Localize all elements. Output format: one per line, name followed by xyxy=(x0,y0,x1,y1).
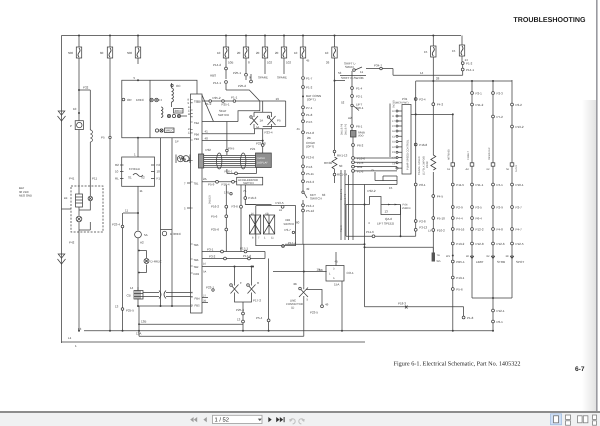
svg-text:TB1: TB1 xyxy=(194,183,199,186)
wire P13-5 xyxy=(245,204,256,206)
connector P1-8 xyxy=(302,113,305,116)
wire col437 xyxy=(432,106,434,253)
svg-text:P25-6: P25-6 xyxy=(236,308,244,312)
terminal A1 xyxy=(451,163,455,166)
terminal A2r xyxy=(470,163,474,166)
connector P4-4 xyxy=(451,217,454,220)
svg-text:P1-2: P1-2 xyxy=(466,62,473,66)
svg-text:P1-4: P1-4 xyxy=(356,87,363,91)
svg-text:RH1-13: RH1-13 xyxy=(337,154,348,158)
svg-text:P9-5: P9-5 xyxy=(228,146,235,150)
connector P10-2 xyxy=(432,229,435,232)
connector P9-16 xyxy=(451,228,454,231)
svg-text:P19-2: P19-2 xyxy=(456,242,464,246)
wire top bus xyxy=(62,35,462,37)
svg-text:5A: 5A xyxy=(203,271,206,274)
svg-text:10: 10 xyxy=(294,51,298,55)
connector P11-1 xyxy=(471,183,474,186)
wire P41 column xyxy=(78,64,80,194)
svg-text:20: 20 xyxy=(275,51,279,55)
connector P6-4 xyxy=(471,217,474,220)
wire F5 column down xyxy=(246,62,251,80)
svg-text:26: 26 xyxy=(326,61,330,65)
svg-text:P25-5: P25-5 xyxy=(126,309,134,313)
wire spare1 xyxy=(264,62,266,74)
svg-text:P13-2: P13-2 xyxy=(516,125,524,129)
svg-text:P12-1: P12-1 xyxy=(497,309,505,313)
svg-text:P25-6: P25-6 xyxy=(211,228,219,232)
svg-text:P16-3: P16-3 xyxy=(248,196,256,200)
svg-text:P7-1: P7-1 xyxy=(306,106,313,110)
svg-text:2B: 2B xyxy=(203,300,206,303)
connector P7-2k xyxy=(302,86,305,89)
svg-text:P41: P41 xyxy=(69,177,75,181)
connector P2-5 xyxy=(471,206,474,209)
connector P2-9 xyxy=(451,206,454,209)
fuse F8 10A xyxy=(294,35,310,63)
ribbon left connector xyxy=(199,154,204,168)
battery cell stack xyxy=(76,194,83,207)
svg-text:P10-2: P10-2 xyxy=(437,229,445,233)
svg-text:P3-1: P3-1 xyxy=(207,248,214,252)
wire P5 column xyxy=(109,64,111,331)
connector P4-7 xyxy=(511,228,514,231)
svg-text:28: 28 xyxy=(436,77,440,81)
svg-text:P5-6: P5-6 xyxy=(456,288,463,292)
connector P25-2a xyxy=(250,80,253,83)
rectifier 2REC xyxy=(174,109,184,114)
wire SCR to P23-4 xyxy=(254,129,272,155)
internal wire xyxy=(149,80,151,138)
horn box xyxy=(351,131,357,138)
svg-text:10: 10 xyxy=(157,170,161,174)
svg-text:P2-7: P2-7 xyxy=(516,206,523,210)
svg-text:25MFD: 25MFD xyxy=(402,207,411,210)
svg-text:LIFT SPEED: LIFT SPEED xyxy=(377,221,395,225)
svg-text:TB4: TB4 xyxy=(194,122,199,125)
svg-text:53: 53 xyxy=(338,71,342,75)
svg-text:P19-1: P19-1 xyxy=(456,276,464,280)
wire col512 xyxy=(511,80,513,259)
svg-text:P2-4: P2-4 xyxy=(419,98,426,102)
svg-text:R2: R2 xyxy=(115,163,119,167)
svg-text:P16-4: P16-4 xyxy=(222,183,230,187)
ffield coil xyxy=(133,174,143,177)
svg-text:2RO8: 2RO8 xyxy=(426,161,429,168)
svg-text:15: 15 xyxy=(424,50,428,54)
svg-text:NEG GND: NEG GND xyxy=(19,194,32,198)
svg-text:P25-1: P25-1 xyxy=(222,103,230,107)
page number input xyxy=(213,415,263,423)
svg-text:500: 500 xyxy=(68,51,73,55)
svg-text:P5-4: P5-4 xyxy=(256,316,263,320)
svg-text:P17-1: P17-1 xyxy=(240,247,248,251)
svg-text:6A: 6A xyxy=(256,126,259,129)
vertical x390 xyxy=(389,104,391,158)
svg-text:P12-6: P12-6 xyxy=(497,242,505,246)
svg-text:500: 500 xyxy=(127,51,132,55)
svg-text:TRAVEL SPEED: TRAVEL SPEED xyxy=(418,156,421,175)
wire col461 xyxy=(462,62,464,76)
svg-text:6-7: 6-7 xyxy=(575,366,585,373)
connector P5-11 xyxy=(302,172,305,175)
svg-text:P13-5: P13-5 xyxy=(276,201,284,205)
SCR P5 xyxy=(268,115,276,129)
connector P2-9b xyxy=(492,206,495,209)
svg-text:RL: RL xyxy=(115,177,119,181)
svg-text:7A: 7A xyxy=(437,254,440,257)
connector P2-8 xyxy=(414,220,417,223)
svg-text:VDO: VDO xyxy=(358,135,363,138)
fuse F5 20A xyxy=(237,35,250,65)
svg-text:SW-1: SW-1 xyxy=(356,106,364,110)
wire bottom bus L1 xyxy=(62,341,366,343)
wire to CO box xyxy=(273,271,327,273)
svg-text:P7-2: P7-2 xyxy=(497,115,504,119)
svg-text:P25-2: P25-2 xyxy=(213,96,221,100)
svg-text:15: 15 xyxy=(452,49,456,53)
svg-text:11: 11 xyxy=(360,70,363,74)
svg-text:P16-2: P16-2 xyxy=(211,205,219,209)
svg-text:1P: 1P xyxy=(175,140,179,144)
toolbar background xyxy=(0,413,600,426)
svg-text:SV21B: SV21B xyxy=(393,100,396,108)
fuse F10 15A xyxy=(424,35,436,103)
svg-text:P4-8: P4-8 xyxy=(497,228,504,232)
wire down to SCRs xyxy=(254,101,286,127)
redo rotate icon (disabled) xyxy=(299,419,304,424)
svg-text:P1-6: P1-6 xyxy=(357,169,364,173)
connector P6-1 xyxy=(351,125,354,128)
ribbon loop 1 xyxy=(217,153,222,169)
svg-text:P13-4: P13-4 xyxy=(306,204,314,208)
svg-text:3W.1B P1: 3W.1B P1 xyxy=(340,188,343,200)
svg-text:20: 20 xyxy=(256,51,260,55)
svg-text:A2: A2 xyxy=(140,241,144,245)
prev page button xyxy=(203,417,206,422)
svg-text:P13-3: P13-3 xyxy=(306,180,314,184)
svg-text:P3-7: P3-7 xyxy=(285,228,292,232)
connector P1-6 xyxy=(352,170,355,173)
single page view button (selected) xyxy=(551,414,562,425)
dir switch box xyxy=(256,206,296,246)
wire key column xyxy=(302,62,305,286)
wire P3-2 row xyxy=(202,252,265,259)
connector P4-1 xyxy=(492,183,495,186)
connector P16-8 xyxy=(414,143,417,146)
wire left rail xyxy=(61,36,63,344)
wire col472 xyxy=(471,80,473,259)
svg-text:P23-4: P23-4 xyxy=(265,131,273,135)
svg-text:11: 11 xyxy=(140,189,143,193)
terminal SOV xyxy=(510,163,514,166)
wire qa6 row with step xyxy=(346,197,401,205)
svg-text:SWITCH: SWITCH xyxy=(284,223,295,226)
svg-text:49: 49 xyxy=(325,303,329,307)
horn EW symbol xyxy=(176,155,190,164)
connector P14-2 xyxy=(225,67,228,70)
wire L down xyxy=(303,299,305,337)
wire main vertical x364.5 xyxy=(364,185,366,307)
wire card to col453 xyxy=(411,113,453,115)
svg-text:DASH: DASH xyxy=(258,157,265,160)
svg-text:P4-2: P4-2 xyxy=(437,103,444,107)
svg-text:14: 14 xyxy=(130,286,134,290)
svg-text:P32-2: P32-2 xyxy=(368,189,376,193)
svg-text:13B: 13B xyxy=(141,320,146,324)
svg-text:50: 50 xyxy=(339,164,343,168)
connector P1-5 xyxy=(352,161,355,164)
svg-text:P4-6: P4-6 xyxy=(306,165,313,169)
two page view button xyxy=(578,416,588,423)
svg-text:P11-5: P11-5 xyxy=(456,183,464,187)
fuse F6 20A xyxy=(256,35,272,65)
svg-text:3W.1B P2: 3W.1B P2 xyxy=(345,123,348,135)
svg-text:5REC: 5REC xyxy=(166,129,175,133)
svg-text:P4-7: P4-7 xyxy=(516,228,523,232)
svg-text:MTR8-8B: MTR8-8B xyxy=(448,149,451,160)
svg-text:P1-1: P1-1 xyxy=(231,96,238,100)
seat switch box xyxy=(202,90,260,122)
connector P4-2 xyxy=(432,103,435,106)
wire battery internals xyxy=(79,201,90,230)
svg-text:P13-6: P13-6 xyxy=(306,156,314,160)
svg-text:P23-5: P23-5 xyxy=(310,311,318,315)
accelerator switch box xyxy=(237,177,263,185)
svg-text:DISPLAY: DISPLAY xyxy=(257,162,268,165)
connector P11-5 xyxy=(451,183,454,186)
svg-text:P1-8: P1-8 xyxy=(467,316,474,320)
svg-text:STRB: STRB xyxy=(497,260,505,264)
stair cluster 75 xyxy=(375,172,397,181)
winding 2 xyxy=(161,107,163,118)
terminal strip panel xyxy=(191,94,203,313)
junction line y306 xyxy=(138,305,191,307)
svg-text:SWITCH: SWITCH xyxy=(310,197,322,201)
svg-text:19: 19 xyxy=(276,97,280,101)
battery dashed box xyxy=(71,186,103,232)
connector PB5-1 xyxy=(451,260,454,263)
svg-text:P12-8: P12-8 xyxy=(476,242,484,246)
svg-text:14: 14 xyxy=(420,71,424,75)
svg-text:P1-7: P1-7 xyxy=(306,77,313,81)
connector R11 xyxy=(352,165,355,168)
svg-text:P5-11: P5-11 xyxy=(306,172,314,176)
svg-text:P4-5: P4-5 xyxy=(306,120,313,124)
connector P11-2 xyxy=(471,103,474,106)
svg-text:P2-2: P2-2 xyxy=(516,103,523,107)
connector P2-1r xyxy=(471,92,474,95)
svg-text:10: 10 xyxy=(115,170,119,174)
connector P1-7 xyxy=(302,77,305,80)
svg-text:4B: 4B xyxy=(293,282,297,286)
connector P1-8r xyxy=(462,316,465,319)
svg-text:1 / 52: 1 / 52 xyxy=(215,417,230,424)
diodes 1REC xyxy=(150,98,154,102)
svg-text:P16-8: P16-8 xyxy=(419,143,427,147)
svg-text:TB6: TB6 xyxy=(194,259,199,262)
svg-text:P9-16: P9-16 xyxy=(456,228,464,232)
wire y266 xyxy=(202,267,253,283)
wire P11-6 row xyxy=(346,205,416,237)
wire contactor bottoms xyxy=(235,297,252,312)
connector P13-6 xyxy=(302,156,305,159)
wire col493 xyxy=(492,80,494,259)
svg-text:P3-13: P3-13 xyxy=(419,226,427,230)
contactor F xyxy=(231,282,239,297)
connector P10-1 xyxy=(511,183,514,186)
svg-text:102: 102 xyxy=(267,61,272,65)
connector P16-1 xyxy=(235,172,238,175)
resistor RH1 xyxy=(335,80,346,82)
svg-text:P32: P32 xyxy=(83,86,89,90)
svg-text:P5: P5 xyxy=(277,119,281,123)
svg-text:P2-5: P2-5 xyxy=(476,206,483,210)
svg-text:P10-1: P10-1 xyxy=(516,183,524,187)
connector P2-3 xyxy=(492,92,495,95)
svg-text:P2-3: P2-3 xyxy=(497,92,504,96)
fuse F9 10A xyxy=(325,35,337,149)
wire 28 bus xyxy=(416,81,512,105)
svg-text:F1: F1 xyxy=(157,177,161,181)
svg-text:P4-4: P4-4 xyxy=(456,217,463,221)
svg-text:P6-1: P6-1 xyxy=(497,320,504,324)
svg-text:P12-5: P12-5 xyxy=(516,242,524,246)
svg-text:SWITCH: SWITCH xyxy=(243,182,254,185)
connector P1-4 xyxy=(351,87,354,90)
svg-text:P17-2: P17-2 xyxy=(243,254,251,258)
svg-text:D 3REC: D 3REC xyxy=(170,232,182,236)
svg-text:S2: S2 xyxy=(141,176,145,180)
svg-text:P12-2: P12-2 xyxy=(476,228,484,232)
contact OR xyxy=(122,98,125,101)
motor P xyxy=(75,121,83,130)
bus junctions xyxy=(109,330,111,332)
fuse FU3 500A xyxy=(127,35,141,65)
connector P6-2 xyxy=(352,144,355,147)
svg-text:P5-10: P5-10 xyxy=(437,217,445,221)
wire y247 xyxy=(365,247,434,261)
loop 13 xyxy=(381,205,401,215)
svg-text:CO-1: CO-1 xyxy=(347,271,354,275)
connector P5-10 xyxy=(432,217,435,220)
svg-text:10B: 10B xyxy=(228,61,233,65)
svg-text:3V18JB: 3V18JB xyxy=(209,195,212,204)
vertical wires left edge xyxy=(341,170,353,240)
svg-text:20: 20 xyxy=(237,51,241,55)
coil on bypass xyxy=(90,130,92,196)
wire lamp box bottom xyxy=(472,297,512,299)
connector P2-4 xyxy=(414,98,417,101)
svg-text:(L): (L) xyxy=(291,307,294,310)
svg-text:63: 63 xyxy=(322,193,326,197)
svg-text:102: 102 xyxy=(286,61,291,65)
SCR 1A xyxy=(250,115,258,129)
motor SA xyxy=(135,231,142,238)
continuous view button xyxy=(566,415,571,425)
svg-text:P14-8: P14-8 xyxy=(306,131,314,135)
connector P4-5 xyxy=(432,195,435,198)
wire bottom bus L3 xyxy=(84,330,493,332)
flow arrow left rail upper xyxy=(58,111,66,121)
svg-text:Figure 6-1. Electrical Schema: Figure 6-1. Electrical Schematic, Part N… xyxy=(394,361,521,368)
svg-text:P21: P21 xyxy=(250,147,256,151)
svg-text:SPARE: SPARE xyxy=(277,76,287,80)
svg-text:P8-1: P8-1 xyxy=(419,183,426,187)
svg-text:S-O-V: S-O-V xyxy=(515,165,518,172)
connector P14-8 xyxy=(302,131,305,134)
svg-text:P6-1: P6-1 xyxy=(356,125,363,129)
svg-text:P42: P42 xyxy=(69,241,75,245)
svg-text:PB5: PB5 xyxy=(195,305,201,308)
svg-text:P11-2: P11-2 xyxy=(476,103,484,107)
ribbon loop 2 xyxy=(241,153,246,169)
svg-text:5A: 5A xyxy=(144,233,148,237)
svg-text:40: 40 xyxy=(205,136,209,140)
CO box xyxy=(326,266,344,282)
svg-text:1A: 1A xyxy=(260,119,264,123)
connector P5-6r xyxy=(451,288,454,291)
connector P14-1r xyxy=(461,68,464,71)
svg-text:D 4REC: D 4REC xyxy=(151,260,163,264)
svg-text:P16-1: P16-1 xyxy=(225,170,233,174)
svg-text:13: 13 xyxy=(115,305,119,309)
svg-text:LIMIT: LIMIT xyxy=(476,260,484,264)
wires to card pins xyxy=(355,158,398,171)
svg-text:SW.IN: SW.IN xyxy=(345,65,354,69)
seat switch wire xyxy=(202,100,286,102)
svg-text:TB2: TB2 xyxy=(194,266,199,269)
dash display block xyxy=(256,153,272,168)
svg-text:15A: 15A xyxy=(334,283,339,287)
svg-text:P2-1: P2-1 xyxy=(476,92,483,96)
svg-text:CONTACTOR: CONTACTOR xyxy=(286,303,303,306)
connector P12-2 xyxy=(471,228,474,231)
svg-text:PB4: PB4 xyxy=(195,298,201,301)
left column stubs xyxy=(225,185,227,252)
connector P2-7 xyxy=(511,206,514,209)
connector P1-2r xyxy=(461,62,464,65)
svg-text:A2: A2 xyxy=(348,116,352,120)
key switch contact xyxy=(303,191,307,198)
svg-text:P5-12: P5-12 xyxy=(306,209,314,213)
svg-text:P17-2: P17-2 xyxy=(253,299,261,303)
connector P14-1a xyxy=(225,81,228,84)
fuse F4 10A xyxy=(217,35,233,65)
svg-text:TB5: TB5 xyxy=(194,244,199,247)
connector P6-1b xyxy=(492,320,495,323)
svg-text:P34-7: P34-7 xyxy=(374,64,382,68)
wire battery to rail xyxy=(62,209,80,331)
undo rotate icon (disabled) xyxy=(290,419,295,424)
wire branch 11 left xyxy=(123,212,138,214)
svg-text:P25-1: P25-1 xyxy=(233,71,241,75)
connector P2-1s xyxy=(351,95,354,98)
svg-text:P1-2: P1-2 xyxy=(306,86,313,90)
flow arrow left rail lower xyxy=(58,254,66,264)
svg-text:15: 15 xyxy=(389,186,393,190)
svg-text:SPARE: SPARE xyxy=(258,76,268,80)
svg-text:P3-2: P3-2 xyxy=(209,255,216,259)
svg-text:75: 75 xyxy=(243,189,247,193)
wire spare2 xyxy=(283,62,285,74)
svg-text:P14-5: P14-5 xyxy=(340,225,343,232)
svg-text:45: 45 xyxy=(306,59,310,63)
wire card col down xyxy=(415,105,417,229)
wire left col down xyxy=(351,71,353,104)
diode 3REC xyxy=(162,231,166,235)
toolbar separator xyxy=(0,411,600,413)
